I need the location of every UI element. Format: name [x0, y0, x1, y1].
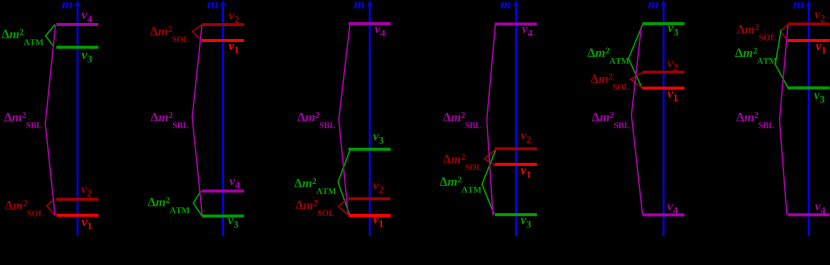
brace Delta m2 SOL panel 3 [338, 199, 348, 215]
label nu4 panel 6 [815, 204, 825, 213]
brace Delta m2 ATM panel 6 [775, 30, 788, 88]
line nu1 panel 5 [642, 87, 684, 90]
line nu4 panel 5 [642, 213, 684, 216]
arrowhead of m axis [661, 0, 666, 7]
line nu1 panel 1 [56, 214, 98, 217]
label nu2 panel 5 [668, 61, 678, 70]
label nu1 panel 3 [373, 217, 383, 226]
line nu2 panel 6 [788, 23, 830, 26]
label nu1 panel 5 [668, 92, 678, 101]
brace Delta m2 ATM panel 5 [629, 25, 643, 89]
label m [793, 2, 803, 8]
line nu3 panel 2 [202, 215, 244, 218]
label nu2 panel 4 [521, 134, 531, 143]
label Delta m^2 SOL panel 1 [5, 200, 44, 216]
axis panel 5: vertical m axis with arrow [663, 4, 665, 236]
brace Delta m2 ATM panel 1 [46, 25, 55, 48]
label m [62, 2, 72, 8]
line nu2 panel 5 [642, 71, 684, 74]
label nu3 panel 4 [521, 218, 531, 227]
axis panel 6: vertical m axis with arrow [808, 4, 810, 236]
label nu4 panel 4 [522, 27, 532, 36]
brace Delta m2 SOL panel 6 [780, 25, 788, 41]
label Delta m^2 SOL panel 6 [737, 24, 776, 40]
line nu1 panel 3 [349, 214, 391, 217]
arrowhead of m axis [220, 0, 225, 7]
brace Delta m2 SOL panel 2 [192, 25, 202, 41]
line nu4 panel 3 [349, 22, 391, 25]
brace Delta m2 ATM panel 4 [482, 151, 496, 214]
label nu4 panel 3 [375, 27, 385, 36]
label nu1 panel 2 [229, 44, 239, 53]
line nu2 panel 2 [202, 23, 244, 26]
brace Delta m2 SOL panel 1 [47, 199, 55, 215]
brace Delta m2 SBL panel 3 [339, 24, 350, 214]
line nu4 panel 6 [788, 213, 830, 216]
label Delta m^2 SBL panel 4 [443, 112, 481, 128]
brace Delta m2 SOL panel 5 [630, 72, 643, 88]
label nu2 panel 1 [81, 187, 91, 196]
label nu3 panel 3 [373, 134, 383, 143]
brace Delta m2 SBL panel 6 [780, 25, 789, 215]
label Delta m^2 ATM panel 6 [735, 48, 777, 64]
label Delta m^2 ATM panel 1 [2, 29, 44, 45]
line nu2 panel 1 [56, 198, 98, 201]
axis panel 4: vertical m axis with arrow [515, 4, 517, 236]
label Delta m^2 SBL panel 6 [736, 112, 774, 128]
axis panel 1: vertical m axis with arrow [77, 4, 79, 236]
label m [207, 2, 217, 8]
line nu2 panel 4 [495, 147, 537, 150]
line nu3 panel 6 [788, 86, 830, 89]
brace Delta m2 ATM panel 3 [338, 151, 350, 215]
line nu3 panel 5 [642, 22, 684, 25]
line nu1 panel 4 [495, 163, 537, 166]
line nu4 panel 2 [202, 190, 244, 193]
label nu3 panel 1 [82, 53, 92, 62]
line nu2 panel 3 [349, 197, 391, 200]
brace Delta m2 SOL panel 4 [484, 150, 495, 166]
axis panel 3: vertical m axis with arrow [369, 4, 371, 236]
label nu4 panel 1 [82, 13, 92, 22]
line nu4 panel 4 [495, 23, 537, 26]
label m [354, 2, 364, 8]
brace Delta m2 ATM panel 2 [193, 191, 202, 216]
label m [648, 2, 658, 8]
brace Delta m2 SBL panel 5 [631, 25, 642, 214]
arrowhead of m axis [513, 0, 518, 7]
label Delta m^2 SBL panel 5 [592, 112, 630, 128]
label nu4 panel 2 [230, 179, 240, 188]
label nu3 panel 2 [228, 218, 238, 227]
label nu4 panel 5 [667, 204, 677, 213]
label nu2 panel 6 [815, 12, 825, 21]
label Delta m^2 ATM panel 3 [294, 178, 336, 194]
label Delta m^2 ATM panel 5 [587, 48, 629, 64]
label Delta m^2 SBL panel 1 [4, 112, 42, 128]
brace Delta m2 SBL panel 2 [192, 25, 202, 216]
label Delta m^2 SOL panel 4 [443, 154, 482, 170]
line nu3 panel 3 [349, 148, 391, 151]
label Delta m^2 SBL panel 2 [151, 112, 189, 128]
label Delta m^2 ATM panel 2 [148, 197, 190, 213]
label nu2 panel 2 [229, 14, 239, 23]
label Delta m^2 ATM panel 4 [440, 177, 482, 193]
brace Delta m2 SBL panel 1 [45, 25, 55, 215]
label nu1 panel 4 [521, 168, 531, 177]
arrowhead of m axis [367, 0, 372, 7]
label nu1 panel 6 [816, 44, 826, 53]
axis panel 2: vertical m axis with arrow [222, 4, 224, 236]
line nu4 panel 1 [56, 23, 98, 26]
label nu3 panel 6 [814, 93, 824, 102]
brace Delta m2 SBL panel 4 [487, 25, 496, 216]
arrowhead of m axis [75, 0, 80, 7]
line nu3 panel 1 [56, 46, 98, 49]
label nu2 panel 3 [373, 183, 383, 192]
arrowhead of m axis [806, 0, 811, 7]
label nu1 panel 1 [82, 220, 92, 229]
line nu1 panel 2 [202, 39, 244, 42]
label m [500, 2, 510, 8]
label Delta m^2 SOL panel 5 [591, 74, 630, 90]
label nu3 panel 5 [668, 26, 678, 35]
label Delta m^2 SOL panel 3 [295, 200, 334, 216]
line nu1 panel 6 [788, 39, 830, 42]
line nu3 panel 4 [495, 213, 537, 216]
label Delta m^2 SBL panel 3 [297, 112, 335, 128]
label Delta m^2 SOL panel 2 [150, 26, 189, 42]
